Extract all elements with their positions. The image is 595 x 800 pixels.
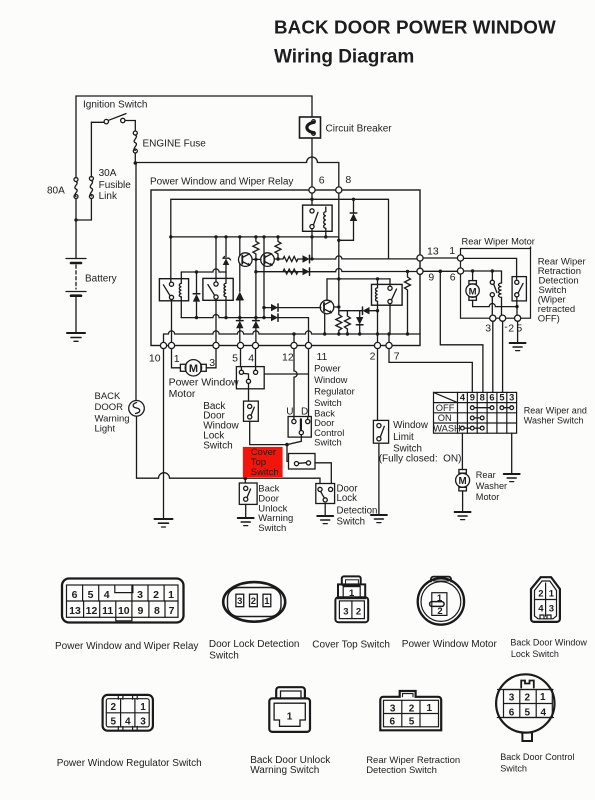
switch back door control [288,417,311,438]
svg-text:3: 3 [137,589,143,601]
battery [66,259,86,334]
wire bus1 to relay2 switch [215,237,217,282]
node dots on pin8 wire [337,277,340,336]
wire Lx horizontal [327,278,390,280]
node dot R7 bottom [406,332,409,335]
node 5 [515,315,521,321]
svg-text:5: 5 [409,717,415,728]
svg-text:9: 9 [470,393,475,403]
svg-text:6: 6 [450,272,456,284]
svg-text:5: 5 [232,353,238,365]
svg-text:3: 3 [343,607,348,618]
svg-text:2: 2 [538,588,543,599]
svg-text:6: 6 [72,589,78,601]
wire zener to relay2 coil [225,272,227,283]
connector door lock detection switch [223,582,285,622]
wire washer feed to grid col8 [440,271,483,392]
node dot R1 bottom [254,258,257,261]
transistor Q1 [239,253,253,267]
svg-text:Power Window Regulator Switch: Power Window Regulator Switch [57,758,202,769]
relay R1 [159,279,188,301]
node dot R2 bottom [276,257,279,260]
svg-text:ENGINE Fuse: ENGINE Fuse [143,139,207,150]
wire warning light to detection switch with hop over pin10 wire [137,416,321,483]
svg-text:Back Door Window: Back Door Window [510,638,587,648]
wire relay4 switch feed [389,279,391,286]
wire pin3 to power window motor [206,349,216,368]
svg-text:Rear Wiper Motor: Rear Wiper Motor [462,237,535,247]
svg-text:8: 8 [345,174,351,186]
wire relay2 coil to bus2 [225,297,227,318]
resistor R6 [344,316,350,334]
grid contacts WASH row [461,426,485,430]
wire pin5 to regulator switch [240,349,243,371]
diode D10 [271,304,321,311]
svg-text:4: 4 [460,393,466,403]
svg-text:3: 3 [237,596,242,607]
node dot park switch feed [491,269,494,272]
svg-text:BACK DOOR POWER WINDOW: BACK DOOR POWER WINDOW [274,17,556,38]
svg-text:5: 5 [88,589,94,601]
wire bus1 drop to L3 [311,237,313,259]
switch power window regulator [236,367,264,389]
svg-text:2: 2 [437,606,442,617]
ground limit switch [371,515,387,523]
svg-text:Switch: Switch [314,437,342,448]
svg-text:2: 2 [153,589,159,601]
wire ENGINE fuse to junction [134,153,136,163]
svg-text:Detection: Detection [337,505,378,516]
node dot L1 pin6 [310,198,313,201]
wire x264 from bus1 down [263,237,265,308]
bottom pin circles 10 1 3 5 4 12 11 2 7 [160,342,392,348]
svg-text:10: 10 [118,605,130,617]
svg-text:80A: 80A [47,186,65,197]
coil in wiper motor [498,283,502,315]
lamp back door warning light [129,401,145,417]
wire 30A branch joins left rail [77,199,91,221]
wire unlock switch to ground [245,504,247,518]
svg-text:13: 13 [427,246,439,258]
svg-text:1: 1 [168,589,174,601]
retraction switch box [512,277,526,301]
svg-text:30A: 30A [99,168,117,179]
wire relay4 coil to pin2 [377,302,379,343]
svg-text:Power: Power [314,362,341,373]
svg-text:Link: Link [99,191,118,202]
pin 9 [417,268,423,274]
node dot washer feed on 9-6 line [439,270,443,274]
svg-text:6: 6 [390,717,396,728]
rear wiper motor box [461,249,531,319]
wire L1 inner top line [171,199,389,258]
svg-text:3: 3 [140,716,146,727]
svg-text:Battery: Battery [85,274,117,285]
wire pin2 down to limit switch [377,349,379,421]
wire node2 to grid col5 [501,321,504,392]
relay R3 top [303,205,333,231]
title [274,17,556,68]
fuse 30A fusible link [89,177,93,199]
svg-text:11: 11 [102,605,113,617]
svg-text:1: 1 [427,703,433,714]
svg-text:Power Window and Wiper Relay: Power Window and Wiper Relay [150,177,293,188]
diode D5 [356,317,363,334]
svg-text:1: 1 [549,588,555,599]
motor rear washer [456,470,470,513]
wire left rail to battery [75,199,77,259]
svg-text:2: 2 [409,703,415,714]
transistor Q2 [261,253,275,267]
svg-text:1: 1 [437,593,443,604]
svg-text:3: 3 [509,692,515,703]
svg-text:ON: ON [438,413,452,423]
wire relay3 coil to bus1 [325,228,327,237]
svg-text:Washer: Washer [476,481,507,491]
node dots bus1 [169,235,327,238]
wire bus3 to pin10 [163,334,165,342]
red highlight cover top switch [243,447,283,477]
svg-text:Switch: Switch [337,516,366,527]
wire relay4 switch to pin7 [389,304,390,343]
node dot motor feed [471,269,474,272]
node 3 [490,315,496,321]
wire top rail from battery to circuit breaker [76,95,312,97]
svg-text:Window: Window [393,420,429,431]
zener diode [223,237,231,272]
node junction 30A link joins rail [74,218,77,221]
svg-text:11: 11 [317,351,328,363]
ground node5 [510,343,526,351]
svg-text:Switch: Switch [251,467,279,478]
svg-text:1: 1 [540,692,546,703]
wire L3 to diode D3 [298,258,302,260]
node dot D5 bus3 [358,332,361,335]
wire pin1 to power window motor [172,349,181,368]
wire relay3 switch to bus1 [311,229,313,237]
svg-text:Cover Top Switch: Cover Top Switch [312,640,390,651]
node 6 [457,268,463,274]
svg-text:Light: Light [95,424,116,435]
svg-text:M: M [189,363,198,375]
node junction above unlock warning switch [243,476,247,480]
wire node1 to retraction switch [464,258,517,279]
wire detection switch to ground [324,504,326,517]
motor power window M [180,360,206,376]
grid contacts ON row [470,416,484,420]
wire node6 line inside box [464,271,502,283]
resistor R4 [283,269,298,274]
wire Q3 emitter to bus3 [324,313,326,334]
pin 6 [309,187,315,193]
svg-text:Circuit Breaker: Circuit Breaker [326,124,393,135]
wire bus1 to relay1 switch [170,237,172,282]
resistor R3 [283,257,298,262]
wire control switch to junction [287,435,301,445]
wire Q1 emitter to L4 [255,259,257,271]
node dot D6 out [376,309,379,312]
svg-text:1: 1 [287,712,293,723]
resistor R5 in pin8 line [336,315,342,335]
fuse ENGINE [133,131,137,153]
wire node13 to node1 [423,257,457,259]
bus3 horizontal with hops [164,331,421,334]
resistor R7 [405,272,411,335]
wire relay1 coil to bus2 [180,297,182,318]
svg-text:3: 3 [549,604,554,615]
svg-text:Window: Window [314,374,348,385]
svg-text:6: 6 [489,393,494,403]
svg-text:Lock Switch: Lock Switch [511,649,559,659]
wire Q1 base chain diode to bus2 [239,264,241,292]
wire node9 to node6 [423,270,457,272]
ground pin10 [155,519,173,527]
wire pin6 into relay3 [311,193,313,205]
wire limit switch to ground [378,443,380,515]
wire ignition to ENGINE fuse [134,121,136,132]
svg-text:4: 4 [538,604,544,615]
wire junction down to cover top switch [287,445,289,462]
svg-text:Detection Switch: Detection Switch [366,765,437,776]
node dot D2 to pin8 wire [337,239,340,242]
svg-text:Switch: Switch [209,651,238,662]
svg-text:Switch: Switch [314,397,342,408]
diode D8 [252,321,259,343]
wire lock switch to junction [250,421,287,444]
node dots bus3 [292,332,390,335]
ground unlock switch [238,518,254,526]
relay box Power Window and Wiper Relay [151,190,420,346]
svg-text:Switch: Switch [203,440,232,451]
svg-text:Regulator: Regulator [314,385,355,396]
svg-text:2: 2 [111,702,117,713]
ground washer motor [455,512,471,520]
svg-text:Motor: Motor [476,492,500,502]
node dot R7 top [406,270,409,273]
node dot L4 start [254,270,257,273]
svg-text:4: 4 [541,707,547,718]
node dot R6 bus3 [346,332,349,335]
node dot junction [285,443,289,447]
svg-text:BACK: BACK [95,391,122,402]
svg-text:10: 10 [149,353,161,365]
wire Q3 collector up to Lx [326,279,328,300]
wire grid col4 to washer motor [461,433,463,469]
svg-text:3: 3 [485,323,491,335]
svg-text:9: 9 [428,272,434,284]
wire pin10 down to ground [163,349,165,519]
svg-text:1: 1 [264,596,270,607]
wire motor bottom to node5 line with hop [473,304,517,307]
svg-text:4: 4 [104,589,110,601]
svg-text:9: 9 [137,605,143,617]
connector back door window lock switch [531,577,560,622]
park switch [490,271,497,315]
wire x264 to bus2 [263,308,265,318]
connector back door unlock warning switch [269,687,310,732]
svg-text:7: 7 [394,351,400,363]
wire retraction switch to node5 [516,297,518,315]
pin 13 [417,255,423,261]
wire left rail down to 80A fuse [75,96,77,178]
svg-text:1: 1 [449,245,455,257]
pin 8 [336,187,342,193]
wire node3 to grid col6 [491,321,494,392]
svg-text:2: 2 [525,692,531,703]
svg-text:DOOR: DOOR [95,402,124,413]
svg-text:5: 5 [111,716,117,727]
svg-text:OFF: OFF [436,403,455,413]
svg-text:Power Window: Power Window [169,376,239,388]
svg-text:Washer Switch: Washer Switch [524,416,584,426]
svg-text:6: 6 [509,707,515,718]
wire junction to unlock warning switch [244,478,246,483]
svg-text:12: 12 [86,605,98,617]
rear wiper and washer switch grid [434,392,517,433]
node junction at engine fuse line [134,161,138,165]
node 1 [457,255,463,261]
wire relay1 switch to pin1 [171,300,173,343]
connector rear wiper retraction detection switch [380,691,441,730]
svg-text:6: 6 [319,175,325,187]
svg-text:Warning Switch: Warning Switch [250,765,319,776]
switch back door unlock warning [239,483,257,504]
svg-text:D: D [301,406,308,417]
connector power window regulator switch [103,695,153,731]
bus2 horizontal [181,315,270,318]
motor rear wiper M [466,271,479,307]
svg-text:3: 3 [509,393,514,403]
diode D4 [303,268,310,275]
wire relay2 switch to pin3 with hop on bus3 [215,299,217,342]
wire L3 to node 13 with hop over pin8 [310,256,418,259]
connector power window and wiper relay [62,579,184,623]
svg-text:Door Lock Detection: Door Lock Detection [209,639,300,650]
svg-text:Ignition Switch: Ignition Switch [83,100,147,111]
node dot Lx relay4 coil [376,277,379,280]
diode D3 [303,255,310,262]
wire node5 to ground [517,321,519,343]
diode D7 [236,292,243,318]
svg-text:Switch: Switch [258,523,286,534]
svg-text:WASH: WASH [433,423,461,433]
wire relay4 coil feed [377,279,379,288]
svg-text:Power Window and Wiper Relay: Power Window and Wiper Relay [55,641,198,652]
wire L4 left segment with hop [181,269,226,272]
svg-text:8: 8 [154,605,160,617]
svg-text:7: 7 [169,605,175,617]
wire warning light feed [135,163,137,401]
svg-text:M: M [459,476,467,487]
wire pin7 to grid col9 [389,349,472,393]
svg-text:1: 1 [349,588,355,599]
svg-text:2: 2 [251,596,256,607]
svg-text:5: 5 [525,707,531,718]
node dot L1 diode tap [352,198,355,201]
svg-text:Switch: Switch [500,764,527,774]
diode D1 [193,272,200,318]
label rear wiper retraction detection switch [538,257,586,325]
stub at box top right [530,247,532,249]
svg-text:Fusible: Fusible [99,180,132,191]
ground battery [67,333,85,341]
wire relay1 coil top to L4 [180,272,182,283]
wire L4 right to node 9 with hop over pin8 [256,268,417,271]
node 2 [500,315,506,321]
svg-text:Wiring Diagram: Wiring Diagram [274,47,414,68]
svg-text:1: 1 [140,702,146,713]
diode D9 pin5 chain [236,318,243,343]
svg-text:1: 1 [174,353,180,365]
node dot L3 at 312 [310,257,313,260]
svg-text:Limit: Limit [393,432,414,443]
ignition switch [91,114,135,124]
svg-text:12: 12 [282,352,294,364]
svg-text:13: 13 [69,605,81,617]
fuse 80A [74,178,78,199]
svg-text:Back Door Control: Back Door Control [500,752,574,762]
node dot D1 tap [195,270,198,273]
svg-text:4: 4 [248,353,254,365]
wire pin11 to control switch D [307,349,310,420]
wire Q3 out to pin8 line [334,306,339,308]
svg-text:Rear Wiper and: Rear Wiper and [524,406,587,416]
resistor R2 [275,237,281,260]
wire engine fuse line to pin 8 with hop over breaker wire [135,157,338,187]
svg-text:2: 2 [370,351,376,363]
ground grid col3 [504,474,520,482]
svg-text:8: 8 [480,393,485,403]
node dot x264 [262,306,265,309]
switch window limit [373,420,388,443]
svg-text:5: 5 [499,393,504,403]
svg-text:2: 2 [508,323,514,335]
svg-text:Lock: Lock [337,493,358,504]
connector back door control switch [496,674,554,741]
wire Q2 out to L3 [274,258,283,260]
wire D5 branch [347,311,359,317]
switch cover top [289,454,316,470]
svg-text:U: U [286,406,293,417]
node dots bus2 [195,316,266,319]
relay R4 [372,284,403,305]
resistor R1 [253,237,259,260]
wire Q1-Q2 link [252,258,261,260]
diode D11 in bus2 [271,314,309,343]
svg-text:OFF): OFF) [538,314,560,325]
switch door lock detection [316,484,335,504]
circuit breaker [300,117,321,138]
node dot Q3 bus3 [323,332,326,335]
svg-text:(Fully closed: ON): (Fully closed: ON) [379,454,462,465]
wire Q1 base chain from bus1 [239,237,241,256]
diode D6 [360,307,378,314]
connector power window motor [418,577,464,625]
wire y307 diode line to Q3 base [264,307,271,309]
wire regulator box to pin11 line [264,373,308,375]
svg-text:Motor: Motor [169,388,196,400]
grid contacts OFF row [470,406,513,410]
switch back door window lock [244,401,259,421]
svg-text:3: 3 [390,703,396,714]
wire cover top switch to door lock detection [315,463,331,484]
ground detection switch [317,516,333,524]
wire R6 branch [339,311,348,316]
transistor Q3 [320,300,334,314]
connector cover top switch [335,576,368,622]
wire regulator to lock switch [248,383,250,401]
wire pin8 vertical [338,193,340,314]
